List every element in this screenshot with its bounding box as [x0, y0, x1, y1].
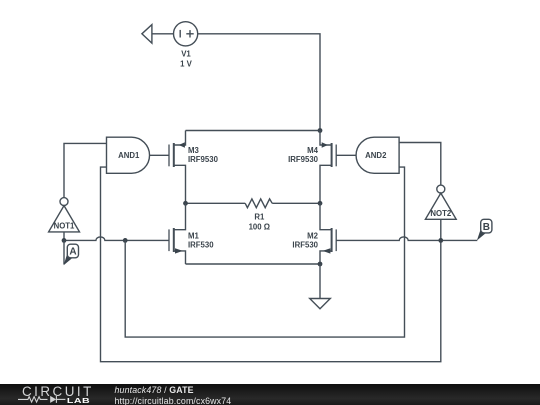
svg-text:AND2: AND2 [365, 151, 387, 160]
transistor M3 (PMOS IRF9530) [169, 131, 186, 204]
wire A flag stub [63, 240, 65, 264]
wire AND1 bottom input feedback (node B) [101, 167, 441, 362]
flag arrow (V1 negative terminal flag) [142, 25, 152, 43]
svg-text:M4: M4 [307, 146, 318, 155]
svg-text:B: B [483, 222, 490, 233]
svg-text:R1: R1 [254, 213, 265, 222]
svg-text:IRF530: IRF530 [292, 240, 318, 249]
transistor M4 (PMOS IRF9530) [320, 131, 336, 204]
svg-text:A: A [69, 247, 76, 258]
svg-text:LAB: LAB [67, 397, 90, 405]
svg-text:IRF9530: IRF9530 [288, 155, 319, 164]
svg-text:V1: V1 [181, 50, 191, 59]
wire bottom rail [186, 263, 321, 265]
wire NOT1 output to AND1 top input [64, 143, 107, 197]
junction mid rail left [183, 201, 188, 206]
voltage source V1 [174, 22, 198, 46]
svg-text:IRF530: IRF530 [188, 240, 214, 249]
wire AND1 output to M3 gate [150, 154, 169, 156]
CircuitLab logo [0, 383, 110, 405]
wire NOT2 input stub [440, 219, 442, 240]
junction node A / inner feedback [123, 238, 128, 243]
svg-text:100 Ω: 100 Ω [249, 223, 270, 232]
svg-text:M3: M3 [188, 146, 199, 155]
wire mid rail right [272, 202, 320, 204]
gate AND2 [356, 137, 399, 173]
svg-text:NOT2: NOT2 [430, 209, 451, 218]
transistor M1 (NMOS IRF530) [169, 203, 186, 264]
footer bar [0, 384, 540, 405]
gate NOT2 [425, 185, 456, 219]
wire V1 to top right corner [198, 34, 321, 131]
junction node B / NOT2 / feedback [438, 238, 443, 243]
wire node B horizontal (with hop over feedback) [336, 237, 477, 240]
wire NOT1 input stub [63, 232, 65, 241]
ground [310, 299, 331, 309]
wire ground stub [319, 264, 321, 299]
svg-text:IRF9530: IRF9530 [188, 155, 219, 164]
transistor M2 (NMOS IRF530) [320, 203, 336, 264]
resistor R1 [245, 199, 272, 208]
junction node A / NOT1 [62, 238, 67, 243]
gate AND1 [107, 137, 150, 173]
wire [152, 33, 174, 35]
node B flag [477, 219, 492, 240]
svg-text:AND1: AND1 [118, 151, 140, 160]
wire AND2 output to M4 gate [336, 154, 356, 156]
wire top rail [186, 130, 321, 132]
svg-text:1 V: 1 V [180, 60, 193, 69]
svg-text:NOT1: NOT1 [54, 222, 75, 231]
junction top rail / V1 [318, 128, 323, 133]
svg-text:M2: M2 [307, 231, 318, 240]
footer credit line [115, 385, 232, 405]
svg-text:M1: M1 [188, 231, 199, 240]
wire AND2 bottom input feedback (node A) [125, 167, 404, 337]
junction mid rail right [318, 201, 323, 206]
wire node A horizontal (with hop over feedback) [64, 237, 169, 240]
wire mid rail left [186, 202, 246, 204]
gate NOT1 [49, 198, 80, 232]
wire NOT2 output to AND2 top input [399, 143, 441, 186]
node A flag [64, 244, 79, 265]
junction bottom rail / ground [318, 262, 323, 267]
